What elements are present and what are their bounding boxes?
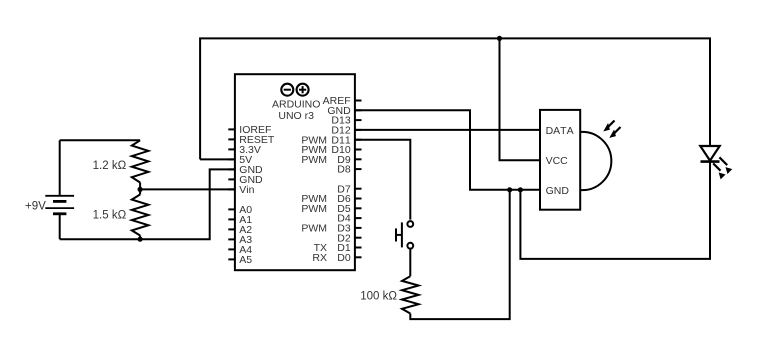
Arduino right pin labels (323, 95, 351, 264)
pushbutton SW1 (396, 221, 413, 249)
resistor R3 100 kOhm (402, 276, 419, 313)
wire D11 to pushbutton (355, 140, 410, 220)
Arduino left pin stubs (228, 129, 235, 259)
svg-text:PWM: PWM (301, 223, 327, 235)
svg-text:Vin: Vin (239, 184, 254, 196)
LED D1 (700, 146, 731, 178)
node divider junction (138, 187, 143, 192)
svg-text:D0: D0 (337, 252, 351, 264)
Arduino U1 body (235, 74, 355, 270)
wire D12 to sensor DATA (355, 129, 540, 131)
wire VCC drop to sensor (500, 38, 541, 160)
svg-text:DATA: DATA (546, 125, 574, 137)
wire 100k return to GND rail (410, 190, 509, 319)
wire divider junction to Vin (140, 188, 235, 190)
svg-text:UNO r3: UNO r3 (278, 110, 314, 122)
Arduino logo (281, 84, 308, 96)
svg-text:100 kΩ: 100 kΩ (360, 290, 397, 302)
svg-text:VCC: VCC (546, 155, 569, 167)
wire LED cathode return to GND rail (520, 162, 710, 259)
svg-text:GND: GND (546, 185, 570, 197)
svg-text:A5: A5 (239, 254, 252, 266)
node VCC tap on 5V rail (497, 36, 502, 41)
Arduino PWM / TX / RX prefixes (301, 134, 327, 264)
node GND tap for LED return (518, 187, 523, 192)
wire pushbutton to resistor (409, 249, 411, 276)
wire battery top rail (60, 139, 140, 141)
svg-text:D8: D8 (337, 164, 351, 176)
resistor R2 1.5 kOhm (139, 189, 141, 194)
node battery bottom junction (138, 237, 143, 242)
svg-text:PWM: PWM (301, 154, 327, 166)
svg-text:PWM: PWM (301, 203, 327, 215)
svg-text:1.5 kΩ: 1.5 kΩ (93, 210, 127, 222)
Arduino right pin stubs (355, 101, 362, 258)
resistor R1 1.2 kOhm (132, 140, 149, 182)
wire GND from Arduino to sensor (355, 110, 540, 190)
sensor module U2 (540, 110, 611, 210)
Arduino left pin labels (239, 124, 275, 266)
wire 5V top rail (200, 38, 710, 159)
svg-text:RX: RX (312, 252, 327, 264)
svg-text:+9V: +9V (25, 201, 46, 213)
battery BT1 +9V (25, 140, 74, 239)
svg-text:1.2 kΩ: 1.2 kΩ (93, 160, 127, 172)
wire bottom rail to Arduino GND (60, 169, 235, 239)
node GND tap for 100k return (507, 187, 512, 192)
svg-text:ARDUINO: ARDUINO (272, 99, 320, 111)
sensor light arrows (604, 121, 620, 138)
